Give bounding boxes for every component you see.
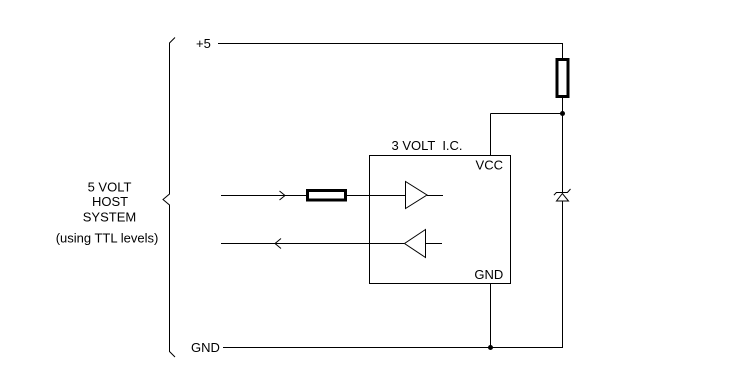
svg-text:5 VOLT: 5 VOLT — [88, 180, 132, 195]
svg-text:GND: GND — [474, 267, 503, 282]
svg-text:SYSTEM: SYSTEM — [83, 209, 136, 224]
svg-text:GND: GND — [191, 340, 220, 355]
svg-text:(using TTL levels): (using TTL levels) — [56, 231, 159, 246]
svg-text:+5: +5 — [196, 36, 211, 51]
svg-text:3 VOLT I.C.: 3 VOLT I.C. — [392, 138, 463, 153]
svg-text:HOST: HOST — [92, 194, 128, 209]
svg-text:VCC: VCC — [476, 158, 503, 173]
